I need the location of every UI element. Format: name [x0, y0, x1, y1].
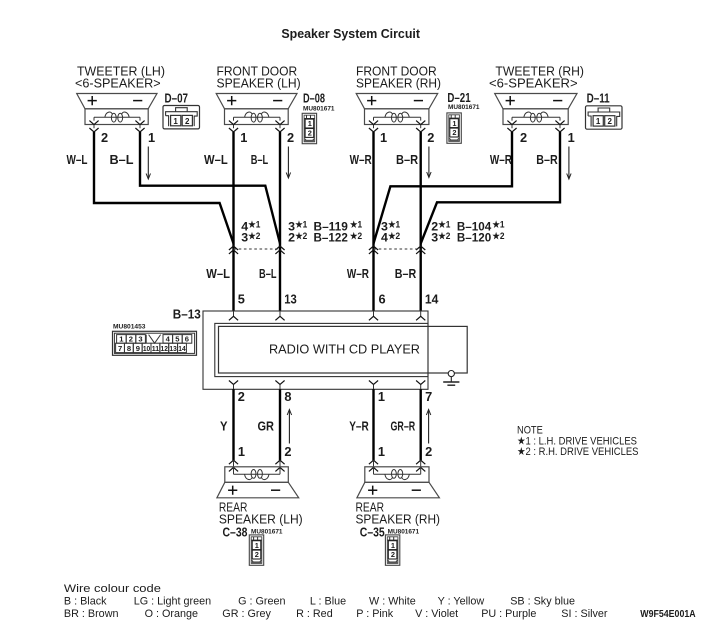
speaker TWEETER (RH) — [495, 94, 577, 133]
speaker body: trapezoid — [356, 94, 438, 109]
wire B-L from tweeter LH pin 1 to joint — [140, 132, 280, 244]
terminal chevrons pin 2 — [275, 460, 284, 464]
terminal chevrons pin right — [416, 121, 425, 125]
ground symbol — [443, 371, 459, 386]
direction arrow (GR-R wire) — [428, 411, 430, 444]
svg-text:1: 1 — [452, 119, 456, 128]
speaker body: frame — [365, 109, 429, 125]
label TWEETER (LH) — [75, 64, 165, 90]
svg-text:W9F54E001A: W9F54E001A — [640, 609, 695, 620]
speaker terminal + — [506, 96, 515, 105]
wire W-L from tweeter LH pin 2 to joint — [94, 132, 234, 244]
svg-text:3: 3 — [138, 335, 142, 344]
direction arrow (GR wire) — [288, 411, 290, 444]
speaker body: trapezoid — [77, 94, 157, 109]
joint connector chevrons at x=280.0 — [275, 246, 284, 254]
svg-text:B–R: B–R — [396, 152, 419, 167]
svg-text:2: 2 — [427, 130, 434, 145]
svg-text:B–122: B–122 — [314, 230, 348, 244]
svg-text:<6-SPEAKER>: <6-SPEAKER> — [489, 77, 578, 91]
speaker terminal + — [88, 96, 97, 105]
svg-text:14: 14 — [178, 344, 186, 353]
speaker REAR (LH) — [217, 460, 299, 498]
svg-text:3: 3 — [241, 230, 248, 244]
wire Y radio pin 2 to rear speaker LH pin 1 — [232, 389, 234, 460]
svg-text:G : Green: G : Green — [238, 596, 285, 608]
svg-text:SI : Silver: SI : Silver — [561, 608, 608, 620]
label FRONT DOOR SPEAKER (RH) — [356, 64, 441, 90]
terminal chevrons pin 1 — [369, 460, 378, 464]
wire Y-R radio pin 1 to rear speaker RH pin 1 — [372, 389, 374, 460]
radio bottom terminal at x=420.7 — [416, 381, 425, 390]
note block — [517, 425, 639, 459]
svg-text:14: 14 — [425, 291, 439, 306]
svg-text:1: 1 — [568, 130, 575, 145]
svg-text:O : Orange: O : Orange — [145, 608, 198, 620]
svg-text:8: 8 — [127, 344, 131, 353]
svg-text:B–R: B–R — [395, 266, 417, 281]
joint connector chevrons at x=373.5 — [369, 246, 378, 254]
svg-text:2: 2 — [308, 129, 312, 138]
radio top terminal at x=233.5 — [229, 311, 238, 320]
svg-text:★2 : R.H. DRIVE VEHICLES: ★2 : R.H. DRIVE VEHICLES — [517, 446, 639, 458]
svg-text:W : White: W : White — [369, 596, 416, 608]
svg-text:PU : Purple: PU : Purple — [481, 608, 536, 620]
svg-text:D–11: D–11 — [587, 91, 610, 106]
label TWEETER (RH) — [489, 64, 584, 90]
radio bottom terminal at x=233.5 — [229, 381, 238, 390]
speaker body: frame — [225, 467, 288, 483]
svg-text:B–L: B–L — [259, 266, 277, 281]
svg-text:B–L: B–L — [251, 152, 269, 167]
svg-text:★1: ★1 — [492, 220, 504, 230]
svg-text:SB : Sky blue: SB : Sky blue — [510, 596, 575, 608]
direction arrow (front door RH pin 2) — [428, 147, 430, 177]
svg-text:12: 12 — [161, 344, 168, 353]
connector C–35 symbol — [385, 535, 399, 565]
speaker body: frame — [365, 467, 429, 483]
wire colour code line 1 — [64, 596, 575, 608]
terminal chevrons pin 1 — [229, 460, 238, 464]
wire W-R from front door RH pin 1 to radio pin 6 — [372, 132, 374, 311]
svg-text:Y–R: Y–R — [349, 419, 369, 434]
svg-text:2: 2 — [284, 444, 291, 459]
radio bottom terminal at x=280.0 — [275, 381, 284, 390]
connector B-13 outline — [203, 311, 428, 389]
speaker voice coil — [94, 116, 140, 118]
svg-text:<6-SPEAKER>: <6-SPEAKER> — [75, 77, 161, 91]
svg-text:D–08: D–08 — [303, 91, 325, 106]
svg-text:1: 1 — [378, 389, 385, 404]
speaker terminal - — [414, 100, 423, 102]
svg-text:D–21: D–21 — [447, 90, 470, 105]
connector D–21 symbol — [447, 113, 461, 143]
radio shield box — [215, 323, 428, 376]
svg-text:2: 2 — [238, 389, 245, 404]
svg-text:9: 9 — [136, 344, 140, 353]
speaker body: frame — [503, 109, 568, 125]
speaker terminal - — [553, 100, 562, 102]
speaker body: trapezoid — [216, 94, 297, 109]
radio top terminal at x=280.0 — [275, 311, 284, 320]
svg-text:13: 13 — [284, 291, 297, 306]
svg-text:★1: ★1 — [295, 220, 307, 230]
svg-text:GR: GR — [258, 419, 275, 434]
svg-text:★2: ★2 — [438, 231, 450, 241]
svg-text:1: 1 — [238, 444, 245, 459]
terminal chevrons pin right — [135, 121, 144, 125]
svg-text:Wire colour code: Wire colour code — [64, 583, 161, 595]
svg-text:W–R: W–R — [490, 152, 513, 167]
svg-text:MU801671: MU801671 — [448, 104, 480, 111]
svg-text:6: 6 — [379, 291, 386, 306]
radio top terminal at x=373.5 — [369, 311, 378, 320]
svg-text:2: 2 — [288, 230, 295, 244]
svg-text:7: 7 — [425, 389, 432, 404]
speaker TWEETER (LH) — [77, 94, 157, 133]
terminal chevrons pin left — [89, 121, 98, 125]
radio bottom terminal at x=373.5 — [369, 381, 378, 390]
joint connector chevrons at x=420.7 — [416, 246, 425, 254]
svg-text:13: 13 — [169, 344, 176, 353]
svg-text:★1: ★1 — [388, 220, 400, 230]
svg-text:GR–R: GR–R — [391, 419, 416, 434]
speaker terminal + — [228, 486, 237, 495]
svg-text:2: 2 — [101, 130, 108, 145]
speaker terminal - — [133, 100, 142, 102]
svg-text:7: 7 — [118, 344, 122, 353]
wire B-L from front door LH pin 2 to radio pin 13 — [279, 132, 281, 311]
joint dashed line right pair — [374, 248, 421, 250]
svg-text:SPEAKER (RH): SPEAKER (RH) — [356, 77, 441, 91]
wire colour code line 2 — [64, 608, 608, 620]
svg-text:★1: ★1 — [350, 220, 362, 230]
svg-text:B–L: B–L — [110, 152, 134, 167]
svg-text:10: 10 — [143, 344, 150, 353]
connector C–38 symbol — [249, 535, 263, 565]
wire W-L from front door LH pin 1 to radio pin 5 — [232, 132, 234, 311]
svg-text:★2: ★2 — [350, 231, 362, 241]
direction arrow (tweeter LH pin 1) — [147, 147, 149, 179]
svg-text:Speaker System Circuit: Speaker System Circuit — [281, 26, 420, 41]
svg-text:D–07: D–07 — [165, 91, 189, 106]
direction arrow (front door LH pin 2) — [287, 147, 289, 178]
svg-text:★2: ★2 — [295, 231, 307, 241]
speaker body: trapezoid — [357, 482, 440, 498]
svg-text:Y : Yellow: Y : Yellow — [438, 596, 485, 608]
terminal chevrons pin left — [369, 121, 378, 125]
svg-text:SPEAKER (LH): SPEAKER (LH) — [217, 77, 301, 91]
speaker terminal - — [412, 489, 421, 491]
svg-text:V : Violet: V : Violet — [415, 608, 458, 620]
svg-text:MU801671: MU801671 — [303, 106, 335, 113]
speaker terminal + — [227, 96, 236, 105]
speaker voice coil — [512, 116, 560, 118]
svg-text:B : Black: B : Black — [64, 596, 107, 608]
joint connector chevrons at x=233.5 — [229, 246, 238, 254]
speaker voice coil — [374, 116, 421, 118]
speaker terminal + — [367, 96, 376, 105]
wire B-R from front door RH pin 2 to radio pin 14 — [420, 132, 422, 311]
svg-text:★1: ★1 — [248, 220, 260, 230]
svg-text:★1: ★1 — [438, 220, 450, 230]
svg-text:L : Blue: L : Blue — [310, 596, 346, 608]
speaker terminal - — [273, 100, 282, 102]
svg-text:W–L: W–L — [206, 266, 230, 281]
svg-text:2: 2 — [287, 130, 294, 145]
pin numbers top speakers — [101, 130, 575, 145]
wire GR-R radio pin 7 to rear speaker RH pin 2 — [420, 389, 422, 460]
svg-text:1: 1 — [391, 541, 395, 550]
connector D–11 symbol — [586, 106, 623, 129]
speaker body: trapezoid — [495, 94, 577, 109]
svg-text:★2: ★2 — [492, 231, 504, 241]
svg-text:4: 4 — [381, 230, 388, 244]
svg-text:1: 1 — [240, 130, 247, 145]
svg-text:11: 11 — [152, 344, 160, 353]
speaker voice coil — [234, 473, 281, 475]
svg-text:2: 2 — [185, 117, 190, 126]
svg-text:C–35: C–35 — [360, 525, 385, 540]
svg-text:RADIO WITH CD PLAYER: RADIO WITH CD PLAYER — [269, 343, 420, 357]
label REAR SPEAKER (RH) — [356, 500, 441, 526]
svg-text:2: 2 — [608, 117, 613, 126]
svg-text:B–13: B–13 — [173, 306, 201, 321]
svg-text:B–120: B–120 — [457, 230, 491, 244]
connector D–08 symbol — [302, 113, 316, 143]
speaker terminal - — [271, 489, 280, 491]
svg-text:1: 1 — [596, 117, 601, 126]
svg-text:2: 2 — [129, 335, 133, 344]
svg-text:1: 1 — [308, 119, 312, 128]
svg-text:1: 1 — [255, 541, 259, 550]
label REAR SPEAKER (LH) — [219, 500, 303, 526]
speaker REAR (RH) — [357, 460, 440, 498]
svg-text:W–R: W–R — [347, 266, 370, 281]
terminal chevrons pin left — [507, 121, 516, 125]
terminal chevrons pin left — [229, 121, 238, 125]
wire B-R from tweeter RH pin 1 to joint — [421, 132, 560, 244]
speaker body: trapezoid — [217, 482, 299, 498]
svg-text:2: 2 — [425, 444, 432, 459]
terminal chevrons pin 2 — [416, 460, 425, 464]
speaker voice coil — [374, 473, 421, 475]
svg-text:P : Pink: P : Pink — [356, 608, 394, 620]
connector D–07 symbol — [163, 106, 200, 129]
svg-text:W–L: W–L — [67, 152, 88, 167]
direction arrow (tweeter RH pin 1) — [568, 147, 570, 179]
svg-text:W–L: W–L — [204, 152, 228, 167]
radio unit box — [219, 326, 468, 373]
svg-text:2: 2 — [255, 550, 259, 559]
svg-text:★2: ★2 — [248, 231, 260, 241]
terminal chevrons pin right — [275, 121, 284, 125]
connector B-13 pin table — [113, 331, 197, 355]
svg-text:3: 3 — [431, 230, 438, 244]
svg-text:1: 1 — [380, 130, 387, 145]
speaker terminal + — [368, 486, 377, 495]
speaker FRONT DOOR (LH) — [216, 94, 297, 133]
terminal chevrons pin right — [555, 121, 564, 125]
svg-text:2: 2 — [452, 128, 456, 137]
svg-text:C–38: C–38 — [223, 525, 248, 540]
svg-text:B–R: B–R — [536, 152, 558, 167]
joint dashed line left pair — [234, 248, 281, 250]
speaker body: frame — [85, 109, 148, 125]
wire W-R from tweeter RH pin 2 to joint — [374, 132, 513, 244]
svg-text:R : Red: R : Red — [296, 608, 333, 620]
svg-text:1: 1 — [173, 117, 178, 126]
svg-text:5: 5 — [238, 291, 245, 306]
svg-text:W–R: W–R — [350, 152, 373, 167]
svg-text:GR : Grey: GR : Grey — [222, 608, 271, 620]
svg-text:2: 2 — [391, 550, 395, 559]
speaker FRONT DOOR (RH) — [356, 94, 438, 133]
svg-text:2: 2 — [520, 130, 527, 145]
svg-text:LG : Light green: LG : Light green — [134, 596, 211, 608]
svg-text:Y: Y — [220, 419, 228, 434]
svg-text:★2: ★2 — [388, 231, 400, 241]
svg-text:MU801453: MU801453 — [113, 324, 146, 331]
speaker body: frame — [225, 109, 289, 125]
label FRONT DOOR SPEAKER (LH) — [217, 64, 301, 90]
svg-text:6: 6 — [185, 335, 189, 344]
wire GR radio pin 8 to rear speaker LH pin 2 — [279, 389, 281, 460]
svg-text:8: 8 — [284, 389, 291, 404]
radio top terminal at x=420.7 — [416, 311, 425, 320]
svg-text:1: 1 — [148, 130, 155, 145]
svg-text:BR : Brown: BR : Brown — [64, 608, 119, 620]
svg-text:1: 1 — [378, 444, 385, 459]
speaker voice coil — [234, 116, 281, 118]
